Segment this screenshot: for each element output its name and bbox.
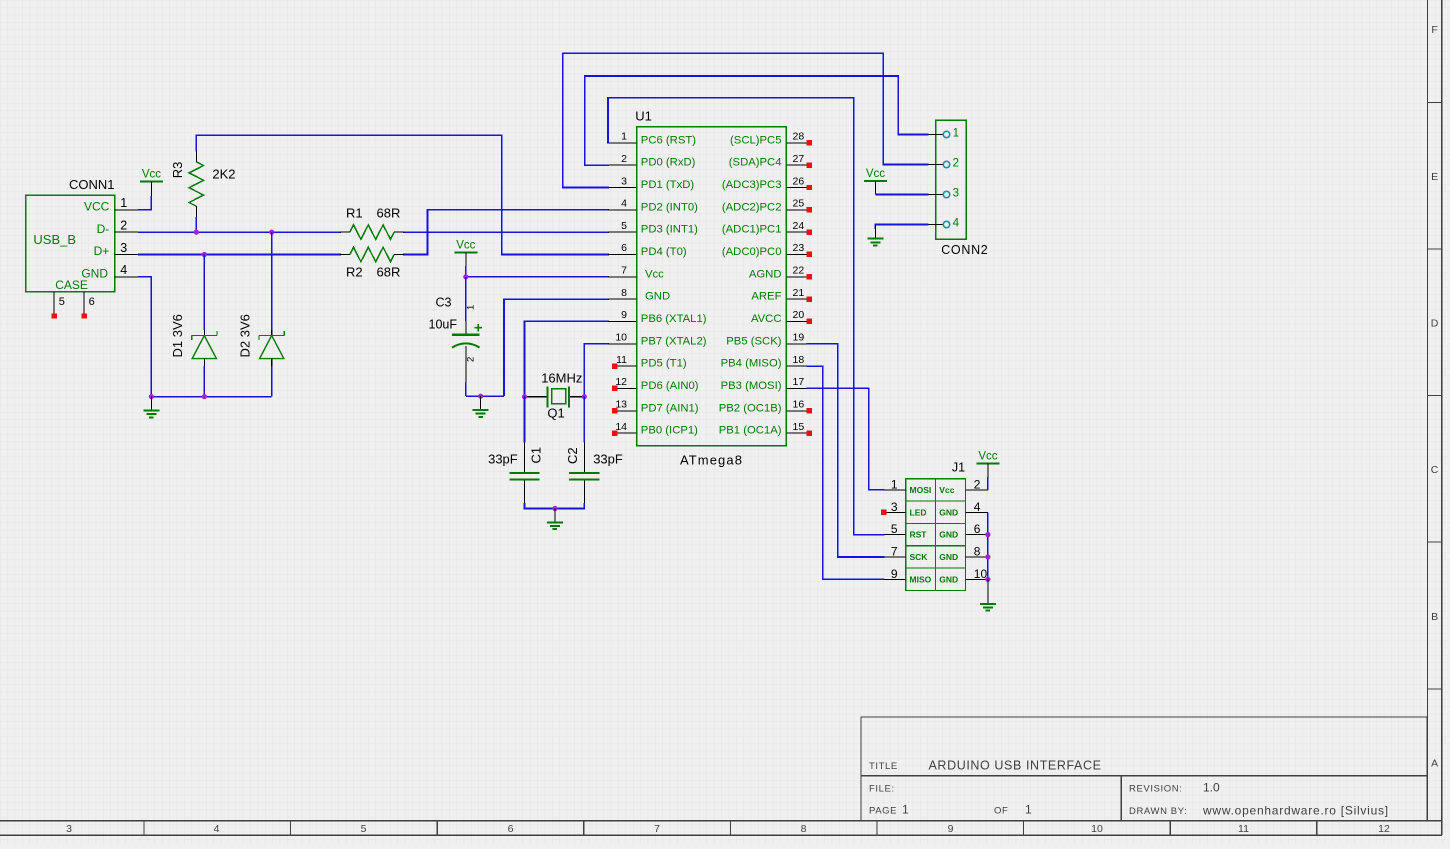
svg-text:2: 2: [621, 153, 627, 165]
no-connect pad U1 pin14: [612, 430, 617, 435]
svg-text:PB3 (MOSI): PB3 (MOSI): [721, 380, 782, 392]
junction C3 ground: [478, 394, 483, 399]
no-connect pad U1 pin21: [807, 296, 812, 301]
wire U1 pin9 XTAL1 to crystal: [525, 321, 610, 396]
svg-text:TITLE: TITLE: [869, 761, 898, 772]
wire CONN1 pin1 to Vcc: [138, 196, 152, 210]
wire D1 to ground rail: [203, 366, 205, 397]
wire U1 pin3 PD1 TxD to CONN2 pin2: [563, 53, 929, 187]
svg-text:PB2 (OC1B): PB2 (OC1B): [719, 402, 782, 414]
svg-text:C1: C1: [529, 447, 544, 464]
ground symbol (CONN2): [867, 225, 883, 246]
no-connect pad U1 pin20: [807, 319, 812, 324]
svg-text:6: 6: [974, 522, 981, 536]
svg-text:16MHz: 16MHz: [541, 371, 582, 386]
svg-text:GND: GND: [939, 507, 958, 517]
svg-text:AREF: AREF: [751, 291, 781, 303]
svg-text:10uF: 10uF: [429, 318, 458, 332]
svg-text:9: 9: [891, 567, 898, 581]
wire C3 bottom to ground: [466, 382, 504, 396]
svg-text:19: 19: [793, 332, 805, 344]
no-connect pad CONN1 pin6: [81, 313, 86, 318]
svg-text:(ADC1)PC1: (ADC1)PC1: [722, 224, 782, 236]
no-connect pad CONN1 pin5: [51, 313, 56, 318]
resistor R2 68R: [340, 247, 405, 279]
capacitor C2 33pF: [565, 397, 623, 503]
svg-text:F: F: [1431, 24, 1437, 36]
zener diode D1 3V6: [170, 314, 217, 366]
svg-text:21: 21: [793, 287, 805, 299]
ground symbol (crystal): [547, 509, 563, 530]
junction D+/D1: [202, 252, 207, 257]
svg-text:C3: C3: [436, 295, 452, 309]
svg-text:(ADC2)PC2: (ADC2)PC2: [722, 201, 782, 213]
svg-text:(ADC0)PC0: (ADC0)PC0: [722, 246, 782, 258]
wire Vcc to J1 pin2: [987, 477, 989, 490]
wire U1 pin17 PB3 MOSI to J1 pin1: [807, 388, 885, 490]
svg-text:ATmega8: ATmega8: [680, 453, 743, 468]
junction ground rail / D1: [202, 394, 207, 399]
svg-text:OF: OF: [994, 805, 1008, 816]
ground symbol (USB): [143, 397, 159, 418]
svg-text:3: 3: [621, 175, 627, 187]
svg-text:3: 3: [66, 823, 72, 835]
title block: [861, 717, 1427, 821]
svg-text:Vcc: Vcc: [866, 168, 885, 180]
svg-text:PC6 (RST): PC6 (RST): [641, 134, 696, 146]
svg-text:GND: GND: [939, 530, 958, 540]
svg-text:33pF: 33pF: [593, 452, 623, 467]
svg-text:E: E: [1431, 171, 1438, 183]
svg-text:1.0: 1.0: [1203, 780, 1220, 794]
wire CONN2 pin4 to ground: [875, 225, 928, 230]
zener diode D2 3V6: [238, 314, 285, 366]
no-connect pad U1 pin26: [807, 185, 812, 190]
svg-text:(SDA)PC4: (SDA)PC4: [729, 157, 782, 169]
no-connect pad U1 pin13: [612, 408, 617, 413]
svg-text:1: 1: [891, 477, 898, 491]
svg-text:SCK: SCK: [910, 552, 929, 562]
svg-text:26: 26: [793, 175, 805, 187]
svg-text:B: B: [1431, 611, 1438, 623]
svg-text:REVISION:: REVISION:: [1129, 783, 1182, 794]
ground symbol (C3): [473, 396, 489, 417]
svg-text:7: 7: [891, 545, 898, 559]
svg-text:MISO: MISO: [910, 574, 932, 584]
op-amp U1 ATmega8 IC body: [635, 108, 786, 467]
wire D+ net CONN1 pin3 to R2: [138, 254, 341, 256]
svg-text:AGND: AGND: [749, 268, 782, 280]
svg-text:Vcc: Vcc: [456, 240, 475, 252]
svg-text:68R: 68R: [377, 265, 401, 280]
no-connect pad J1 pin3: [881, 510, 886, 515]
U1 left pin stubs and numbers: [608, 131, 637, 434]
svg-text:C2: C2: [565, 447, 580, 464]
connector CONN2: [929, 120, 989, 257]
svg-text:6: 6: [89, 296, 95, 308]
svg-text:8: 8: [621, 287, 627, 299]
svg-text:R1: R1: [346, 205, 363, 220]
svg-text:9: 9: [621, 309, 627, 321]
wire D2 to ground rail: [271, 366, 273, 397]
no-connect pad U1 pin11: [612, 363, 617, 368]
svg-text:25: 25: [793, 198, 805, 210]
svg-text:4: 4: [974, 500, 981, 514]
svg-text:GND: GND: [939, 574, 958, 584]
svg-text:CONN1: CONN1: [69, 177, 115, 192]
power symbol Vcc (CONN1): [140, 169, 163, 197]
wire R1 to U1 pin5 PD3: [403, 231, 609, 233]
svg-text:D+: D+: [94, 244, 110, 258]
svg-text:7: 7: [654, 823, 660, 835]
wire ground rail: [151, 396, 271, 398]
svg-text:5: 5: [621, 220, 627, 232]
ground symbol (J1): [980, 579, 996, 610]
svg-text:24: 24: [793, 220, 805, 232]
svg-text:PD2 (INT0): PD2 (INT0): [641, 201, 698, 213]
svg-text:PD1 (TxD): PD1 (TxD): [641, 179, 695, 191]
svg-text:1: 1: [120, 196, 127, 210]
svg-text:18: 18: [793, 354, 805, 366]
wire Vcc to CONN2 pin3: [875, 194, 928, 196]
svg-text:8: 8: [801, 823, 807, 835]
svg-text:www.openhardware.ro [Silvius]: www.openhardware.ro [Silvius]: [1202, 803, 1389, 817]
capacitor C1 33pF: [488, 397, 543, 503]
svg-text:MOSI: MOSI: [910, 485, 932, 495]
svg-text:6: 6: [621, 242, 627, 254]
svg-text:27: 27: [793, 153, 805, 165]
svg-text:4: 4: [953, 218, 960, 230]
svg-text:PB6 (XTAL1): PB6 (XTAL1): [641, 313, 707, 325]
svg-text:9: 9: [948, 823, 954, 835]
svg-text:CONN2: CONN2: [941, 243, 988, 257]
no-connect pad U1 pin28: [807, 140, 812, 145]
svg-text:DRAWN BY:: DRAWN BY:: [1129, 806, 1187, 817]
svg-text:USB_B: USB_B: [33, 232, 76, 247]
junction crystal left: [522, 394, 527, 399]
svg-text:2K2: 2K2: [212, 167, 235, 182]
junction J1 pin8: [985, 554, 990, 559]
svg-text:ARDUINO USB INTERFACE: ARDUINO USB INTERFACE: [929, 758, 1102, 772]
svg-text:5: 5: [59, 296, 65, 308]
svg-text:PB4 (MISO): PB4 (MISO): [721, 358, 782, 370]
svg-text:11: 11: [1238, 823, 1249, 835]
no-connect pad U1 pin25: [807, 207, 812, 212]
wire C1 C2 to ground: [525, 503, 585, 509]
junction D-/R3: [194, 230, 199, 235]
svg-text:2: 2: [974, 477, 981, 491]
svg-text:D2 3V6: D2 3V6: [238, 314, 253, 357]
svg-text:2: 2: [120, 219, 127, 233]
wire U1 pin1 PC6 RST to J1 pin5: [608, 98, 884, 535]
svg-text:2: 2: [466, 357, 477, 362]
svg-text:AVCC: AVCC: [751, 313, 782, 325]
junction J1 pin10: [985, 577, 990, 582]
svg-text:R3: R3: [170, 162, 185, 179]
junction D-/D2: [269, 230, 274, 235]
svg-text:CASE: CASE: [55, 278, 88, 292]
svg-text:22: 22: [793, 265, 805, 277]
wire CONN1 pin4 GND down: [138, 277, 152, 397]
power symbol Vcc (C3 / U1 pin7): [454, 240, 477, 266]
svg-text:1: 1: [953, 128, 959, 140]
svg-text:GND: GND: [939, 552, 958, 562]
wire U1 pin18 PB4 MISO to J1 pin9: [807, 366, 885, 579]
svg-text:PB0 (ICP1): PB0 (ICP1): [641, 425, 698, 437]
svg-text:PD6 (AIN0): PD6 (AIN0): [641, 380, 699, 392]
wire R2 to U1 pin4 PD2: [403, 210, 609, 255]
junction Vcc/C3/pin7: [463, 274, 468, 279]
U1 right pin stubs and numbers: [786, 131, 806, 434]
wire D+ junction to D1: [203, 255, 205, 331]
svg-text:16: 16: [793, 399, 805, 411]
svg-text:PD7 (AIN1): PD7 (AIN1): [641, 402, 699, 414]
svg-text:C: C: [1431, 464, 1439, 476]
svg-text:3: 3: [891, 500, 898, 514]
svg-text:4: 4: [621, 198, 627, 210]
svg-text:23: 23: [793, 242, 805, 254]
power symbol Vcc (CONN2 pin3): [864, 168, 887, 194]
svg-text:GND: GND: [645, 291, 670, 303]
svg-text:5: 5: [361, 823, 367, 835]
svg-text:1: 1: [466, 305, 477, 310]
wire U1 pin8 GND: [504, 299, 609, 396]
svg-text:1: 1: [902, 802, 909, 816]
junction J1 pin6: [985, 532, 990, 537]
svg-text:VCC: VCC: [84, 200, 110, 214]
svg-text:3: 3: [953, 188, 959, 200]
svg-text:4: 4: [120, 263, 127, 277]
svg-text:PD0 (RxD): PD0 (RxD): [641, 157, 696, 169]
svg-text:D1 3V6: D1 3V6: [170, 314, 185, 357]
svg-text:4: 4: [214, 823, 220, 835]
wire D- junction to D2: [271, 232, 273, 330]
svg-text:J1: J1: [952, 461, 965, 475]
resistor R1 68R: [340, 205, 405, 239]
svg-text:3: 3: [120, 241, 127, 255]
svg-text:6: 6: [508, 823, 514, 835]
wire U1 pin10 XTAL2 to crystal: [584, 344, 609, 397]
svg-text:5: 5: [891, 522, 898, 536]
svg-text:PB7 (XTAL2): PB7 (XTAL2): [641, 335, 707, 347]
wire J1 ground chain: [987, 512, 989, 579]
capacitor C3 10uF: [429, 277, 483, 382]
svg-text:7: 7: [621, 265, 627, 277]
no-connect pad U1 pin16: [807, 408, 812, 413]
svg-text:PB1 (OC1A): PB1 (OC1A): [719, 425, 782, 437]
svg-text:(SCL)PC5: (SCL)PC5: [730, 134, 781, 146]
power symbol Vcc (J1 pin2): [976, 450, 999, 477]
connector J1 ISP header: [884, 461, 988, 591]
svg-text:D: D: [1431, 318, 1439, 330]
svg-text:A: A: [1431, 758, 1438, 770]
svg-text:PD3 (INT1): PD3 (INT1): [641, 224, 698, 236]
svg-text:PD4 (T0): PD4 (T0): [641, 246, 687, 258]
wire Vcc to U1 pin7: [466, 266, 609, 277]
svg-text:U1: U1: [635, 108, 652, 123]
svg-text:D-: D-: [97, 222, 110, 236]
wire U1 pin19 PB5 SCK to J1 pin7: [807, 344, 885, 557]
no-connect pad U1 pin15: [807, 430, 812, 435]
svg-text:PAGE: PAGE: [869, 805, 897, 816]
no-connect pad U1 pin22: [807, 274, 812, 279]
svg-text:LED: LED: [910, 507, 927, 517]
svg-text:R2: R2: [346, 265, 363, 280]
svg-text:Vcc: Vcc: [978, 450, 997, 462]
junction crystal right: [582, 394, 587, 399]
svg-text:10: 10: [615, 332, 627, 344]
crystal Q1 16MHz: [525, 371, 583, 421]
svg-text:1: 1: [1025, 802, 1032, 816]
wire R3 top to U1 pin6 PD4: [196, 135, 609, 254]
svg-text:Vcc: Vcc: [939, 485, 954, 495]
svg-text:Q1: Q1: [547, 406, 564, 421]
wire U1 pin2 PD0 RxD to CONN2 pin1: [585, 76, 929, 165]
resistor R3 2K2: [170, 151, 235, 217]
svg-text:11: 11: [616, 354, 627, 366]
junction C1C2 ground: [552, 506, 557, 511]
junction ground rail / GND: [149, 394, 154, 399]
svg-text:15: 15: [793, 421, 805, 433]
no-connect pad U1 pin24: [807, 229, 812, 234]
svg-text:1: 1: [621, 131, 627, 143]
svg-text:Vcc: Vcc: [142, 169, 161, 181]
svg-text:33pF: 33pF: [488, 452, 518, 467]
no-connect pad U1 pin27: [807, 162, 812, 167]
connector CONN1 USB_B: [26, 177, 138, 313]
svg-text:28: 28: [793, 131, 805, 143]
svg-text:12: 12: [1378, 823, 1390, 835]
svg-text:(ADC3)PC3: (ADC3)PC3: [722, 179, 782, 191]
wire D- net CONN1 pin2 to R1: [138, 231, 341, 233]
svg-text:FILE:: FILE:: [869, 783, 895, 794]
svg-text:RST: RST: [910, 530, 928, 540]
svg-text:Vcc: Vcc: [645, 268, 664, 280]
svg-text:PB5 (SCK): PB5 (SCK): [726, 335, 781, 347]
svg-text:17: 17: [793, 376, 805, 388]
no-connect pad U1 pin23: [807, 252, 812, 257]
svg-text:20: 20: [793, 309, 805, 321]
wire R3 bottom to D- net: [195, 217, 197, 232]
svg-text:68R: 68R: [377, 205, 401, 220]
svg-text:+: +: [474, 319, 483, 336]
svg-text:8: 8: [974, 545, 981, 559]
svg-text:2: 2: [953, 158, 959, 170]
no-connect pad U1 pin12: [612, 386, 617, 391]
svg-text:10: 10: [1091, 823, 1103, 835]
svg-text:PD5 (T1): PD5 (T1): [641, 358, 687, 370]
